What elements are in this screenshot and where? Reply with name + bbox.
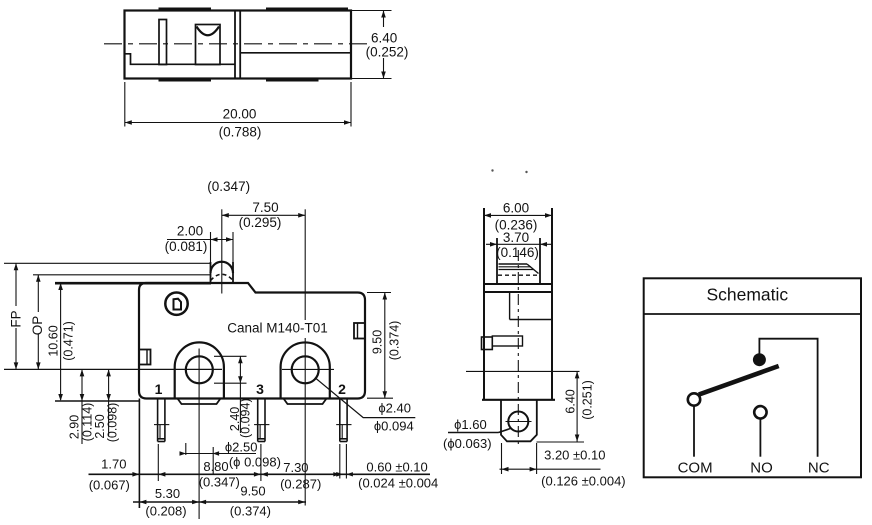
svg-text:(0.347): (0.347) — [207, 179, 250, 194]
svg-text:7.30: 7.30 — [283, 460, 308, 475]
svg-text:2: 2 — [338, 381, 346, 397]
svg-text:8.80: 8.80 — [203, 459, 228, 474]
svg-text:(0.067): (0.067) — [89, 478, 130, 493]
svg-text:6.00: 6.00 — [503, 200, 529, 215]
svg-text:(0.295): (0.295) — [239, 215, 282, 230]
svg-text:9.50: 9.50 — [371, 330, 385, 354]
svg-text:1.70: 1.70 — [101, 456, 126, 471]
svg-text:2.00: 2.00 — [177, 224, 203, 239]
svg-text:ϕ0.094: ϕ0.094 — [374, 418, 414, 433]
svg-text:(0.208): (0.208) — [145, 504, 186, 519]
svg-text:(0.374): (0.374) — [230, 504, 271, 519]
svg-text:(0.081): (0.081) — [165, 239, 208, 254]
svg-text:Canal M140-T01: Canal M140-T01 — [227, 321, 328, 336]
svg-text:Schematic: Schematic — [706, 285, 788, 305]
svg-text:3.70: 3.70 — [503, 230, 529, 245]
svg-text:(ϕ0.063): (ϕ0.063) — [443, 436, 491, 451]
svg-text:ϕ2.50: ϕ2.50 — [225, 440, 258, 455]
svg-text:6.40: 6.40 — [564, 389, 578, 413]
svg-text:10.60: 10.60 — [47, 325, 61, 356]
svg-text:ϕ2.40: ϕ2.40 — [378, 400, 411, 415]
svg-text:(0.251): (0.251) — [581, 380, 595, 420]
svg-text:0.60 ±0.10: 0.60 ±0.10 — [366, 459, 427, 474]
svg-text:(0.098): (0.098) — [106, 403, 120, 443]
svg-text:(0.788): (0.788) — [219, 125, 262, 140]
svg-text:(0.471): (0.471) — [62, 321, 76, 361]
svg-text:(0.024 ±0.004: (0.024 ±0.004 — [358, 476, 438, 491]
svg-text:(0.252): (0.252) — [366, 44, 409, 59]
svg-text:3.20 ±0.10: 3.20 ±0.10 — [544, 447, 605, 462]
svg-text:(ϕ 0.098): (ϕ 0.098) — [229, 454, 281, 469]
svg-text:OP: OP — [30, 316, 45, 336]
svg-text:5.30: 5.30 — [155, 486, 180, 501]
svg-text:7.50: 7.50 — [252, 200, 278, 215]
svg-text:20.00: 20.00 — [223, 107, 257, 122]
svg-text:ϕ1.60: ϕ1.60 — [454, 417, 487, 432]
svg-text:(0.146): (0.146) — [496, 245, 539, 260]
svg-text:1: 1 — [155, 381, 163, 397]
svg-text:6.40: 6.40 — [371, 31, 397, 46]
svg-text:(0.126 ±0.004): (0.126 ±0.004) — [541, 474, 625, 489]
svg-text:COM: COM — [678, 460, 713, 477]
svg-text:NO: NO — [750, 460, 773, 477]
svg-text:(0.374): (0.374) — [388, 321, 402, 361]
svg-text:9.50: 9.50 — [240, 484, 265, 499]
svg-text:FP: FP — [9, 310, 24, 327]
svg-text:3: 3 — [256, 381, 264, 397]
svg-text:(0.287): (0.287) — [280, 477, 321, 492]
svg-text:NC: NC — [808, 460, 830, 477]
svg-text:(0.347): (0.347) — [199, 474, 240, 489]
svg-text:(0.094): (0.094) — [239, 398, 253, 438]
